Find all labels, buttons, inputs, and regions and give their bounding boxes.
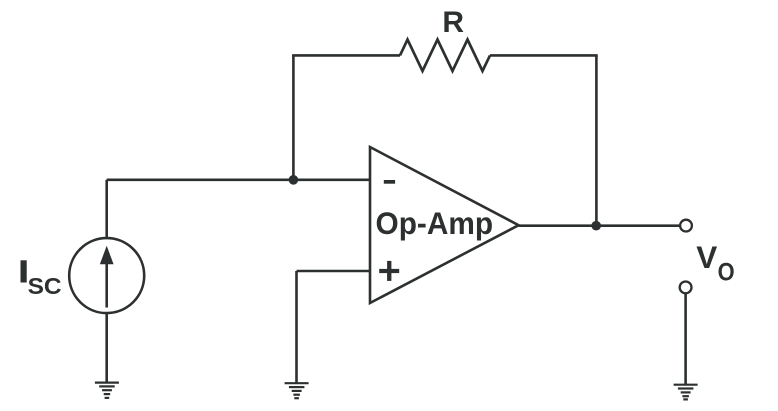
svg-text:SC: SC — [28, 273, 62, 299]
svg-text:V: V — [696, 239, 717, 275]
ground under non-inverting input — [285, 383, 309, 398]
wire non-inverting ground vertical — [295, 271, 298, 383]
svg-text:R: R — [442, 6, 464, 39]
ground under current source — [95, 383, 119, 398]
output terminal circle (top) — [680, 220, 692, 232]
current source arrow head — [100, 246, 114, 264]
op-amp minus sign — [384, 180, 395, 184]
wire feedback top-left horizontal — [292, 54, 400, 57]
current source Isc circle — [69, 238, 144, 313]
output terminal circle (bottom) — [680, 282, 692, 294]
wire feedback left vertical — [292, 55, 295, 179]
wire feedback right vertical — [595, 55, 598, 225]
current source arrow shaft — [105, 262, 108, 308]
ground under output terminal — [674, 385, 698, 400]
svg-text:O: O — [718, 258, 735, 286]
wire current source bottom vertical — [105, 313, 108, 383]
op-amp U1 triangle — [370, 147, 519, 303]
label Isc — [21, 260, 27, 282]
node junction dot (inverting input) — [289, 175, 299, 185]
wire output ground vertical — [684, 293, 687, 384]
wire non-inverting input horizontal — [297, 270, 371, 273]
wire current source top vertical — [105, 180, 108, 239]
node junction dot (output) — [591, 221, 601, 231]
wire feedback top-right horizontal — [490, 54, 598, 57]
op-amp plus sign — [379, 269, 399, 273]
svg-text:Op-Amp: Op-Amp — [376, 205, 494, 241]
wire inverting input horizontal — [107, 179, 370, 182]
resistor R (zigzag) — [400, 40, 490, 72]
wire output horizontal — [519, 224, 680, 227]
